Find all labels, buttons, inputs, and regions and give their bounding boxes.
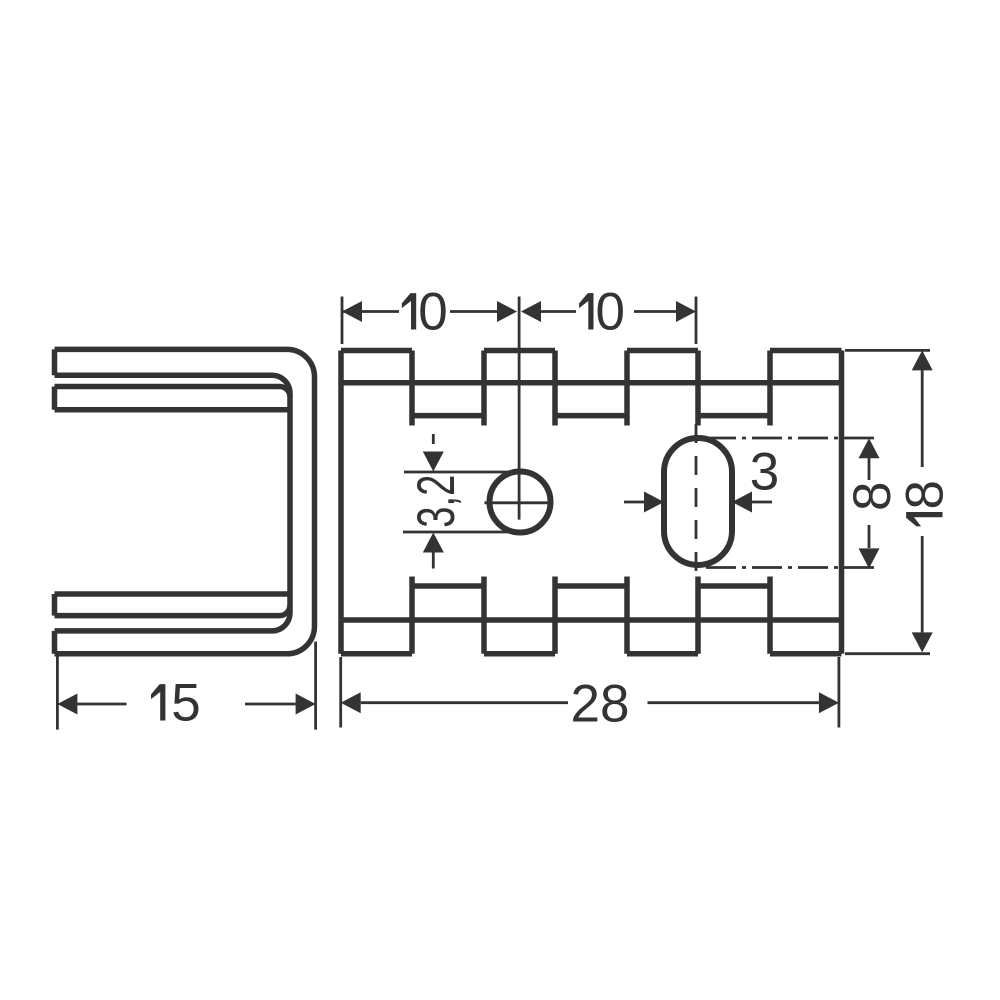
arrowhead 8 down (859, 548, 880, 568)
arrowhead 15 left (57, 694, 77, 715)
dim 10 right extension line (695, 297, 698, 345)
svg-text:3,2: 3,2 (406, 475, 466, 528)
label 10 first: digit 1 (custom) (402, 293, 416, 329)
arrowhead 3 left-pointing (732, 492, 752, 513)
circle horizontal centerline (484, 501, 552, 504)
label 18 rotated: digit 1 (custom) (906, 512, 942, 526)
svg-text:8: 8 (843, 482, 902, 511)
dim 15 right extension line (314, 642, 317, 730)
top view: top tooth verticals (412, 351, 770, 426)
top view: right edge (839, 351, 845, 654)
dim 18 top extension line (845, 349, 930, 352)
slot bottom tangent extension (dash-dot) (706, 566, 876, 569)
label 10 second: digit 1 (custom) (579, 293, 593, 329)
dim 18 bottom extension line (845, 652, 930, 655)
dim 3 right shaft (751, 501, 772, 504)
left view: strip end caps (52, 349, 58, 653)
arrowhead 28 left (341, 692, 361, 713)
svg-text:5: 5 (171, 674, 200, 733)
svg-text:28: 28 (571, 675, 630, 734)
top view: top teeth line (341, 348, 842, 354)
left view: outer strip outer contour (55, 349, 315, 653)
arrowhead 10 mid left-pointing (521, 301, 541, 322)
arrowhead 28 right (819, 692, 839, 713)
dim 10 shafts (342, 310, 678, 313)
top view: lower fold line (341, 617, 842, 623)
arrowhead 3,2 up (423, 533, 444, 553)
label 15: digit 1 (custom) (151, 684, 165, 720)
slot top tangent extension (dash-dot) (706, 437, 876, 440)
arrowhead 10 far left (342, 301, 362, 322)
left view: inner strip bottom (band3) (55, 594, 291, 616)
left view: inner strip top (band2) (55, 387, 291, 410)
dim 28 shafts (361, 701, 819, 704)
slot obround 3x8 (664, 438, 732, 565)
dim 3,2 upper shaft (432, 434, 435, 444)
svg-text:0: 0 (418, 283, 447, 342)
circle vertical centerline (518, 297, 521, 520)
arrowhead 18 up (912, 350, 933, 370)
dim 3,2 bottom extension line (403, 531, 514, 534)
arrowhead 3,2 down (423, 452, 444, 472)
hole circle 3.2 (490, 472, 551, 533)
dim 28 right extension line (838, 657, 841, 728)
label 18 rotated: digit 8 (896, 480, 955, 526)
dim 8 shafts (868, 458, 871, 548)
dim 10 left extension line (341, 297, 344, 345)
top view: top notch line (412, 413, 770, 419)
dim 18 shafts (921, 370, 924, 632)
arrowhead 10 mid right-pointing (497, 301, 517, 322)
dim 15 shafts (77, 703, 295, 706)
dim 15 left extension line (56, 656, 59, 730)
dim 3,2 top extension line (404, 471, 516, 474)
dim 3,2 lower shaft (432, 553, 435, 569)
left view: outer strip inner contour (55, 375, 291, 631)
arrowhead 15 right (296, 694, 316, 715)
arrowhead 10 far right (676, 301, 696, 322)
dim 3 left shaft (624, 501, 645, 504)
dim 28 left extension line (339, 657, 342, 728)
svg-text:0: 0 (596, 283, 625, 342)
top view: bottom teeth line (341, 651, 842, 657)
top view: bottom notch line (412, 583, 770, 589)
top view: bottom tooth verticals (412, 577, 770, 654)
top view: left edge (338, 351, 344, 654)
arrowhead 18 down (912, 632, 933, 652)
slot dashed centerline (695, 424, 698, 574)
svg-text:3: 3 (750, 443, 779, 502)
svg-text:8: 8 (896, 480, 955, 509)
arrowhead 8 up (859, 438, 880, 458)
arrowhead 3 right-pointing (644, 492, 664, 513)
top view: upper fold line (341, 380, 842, 386)
